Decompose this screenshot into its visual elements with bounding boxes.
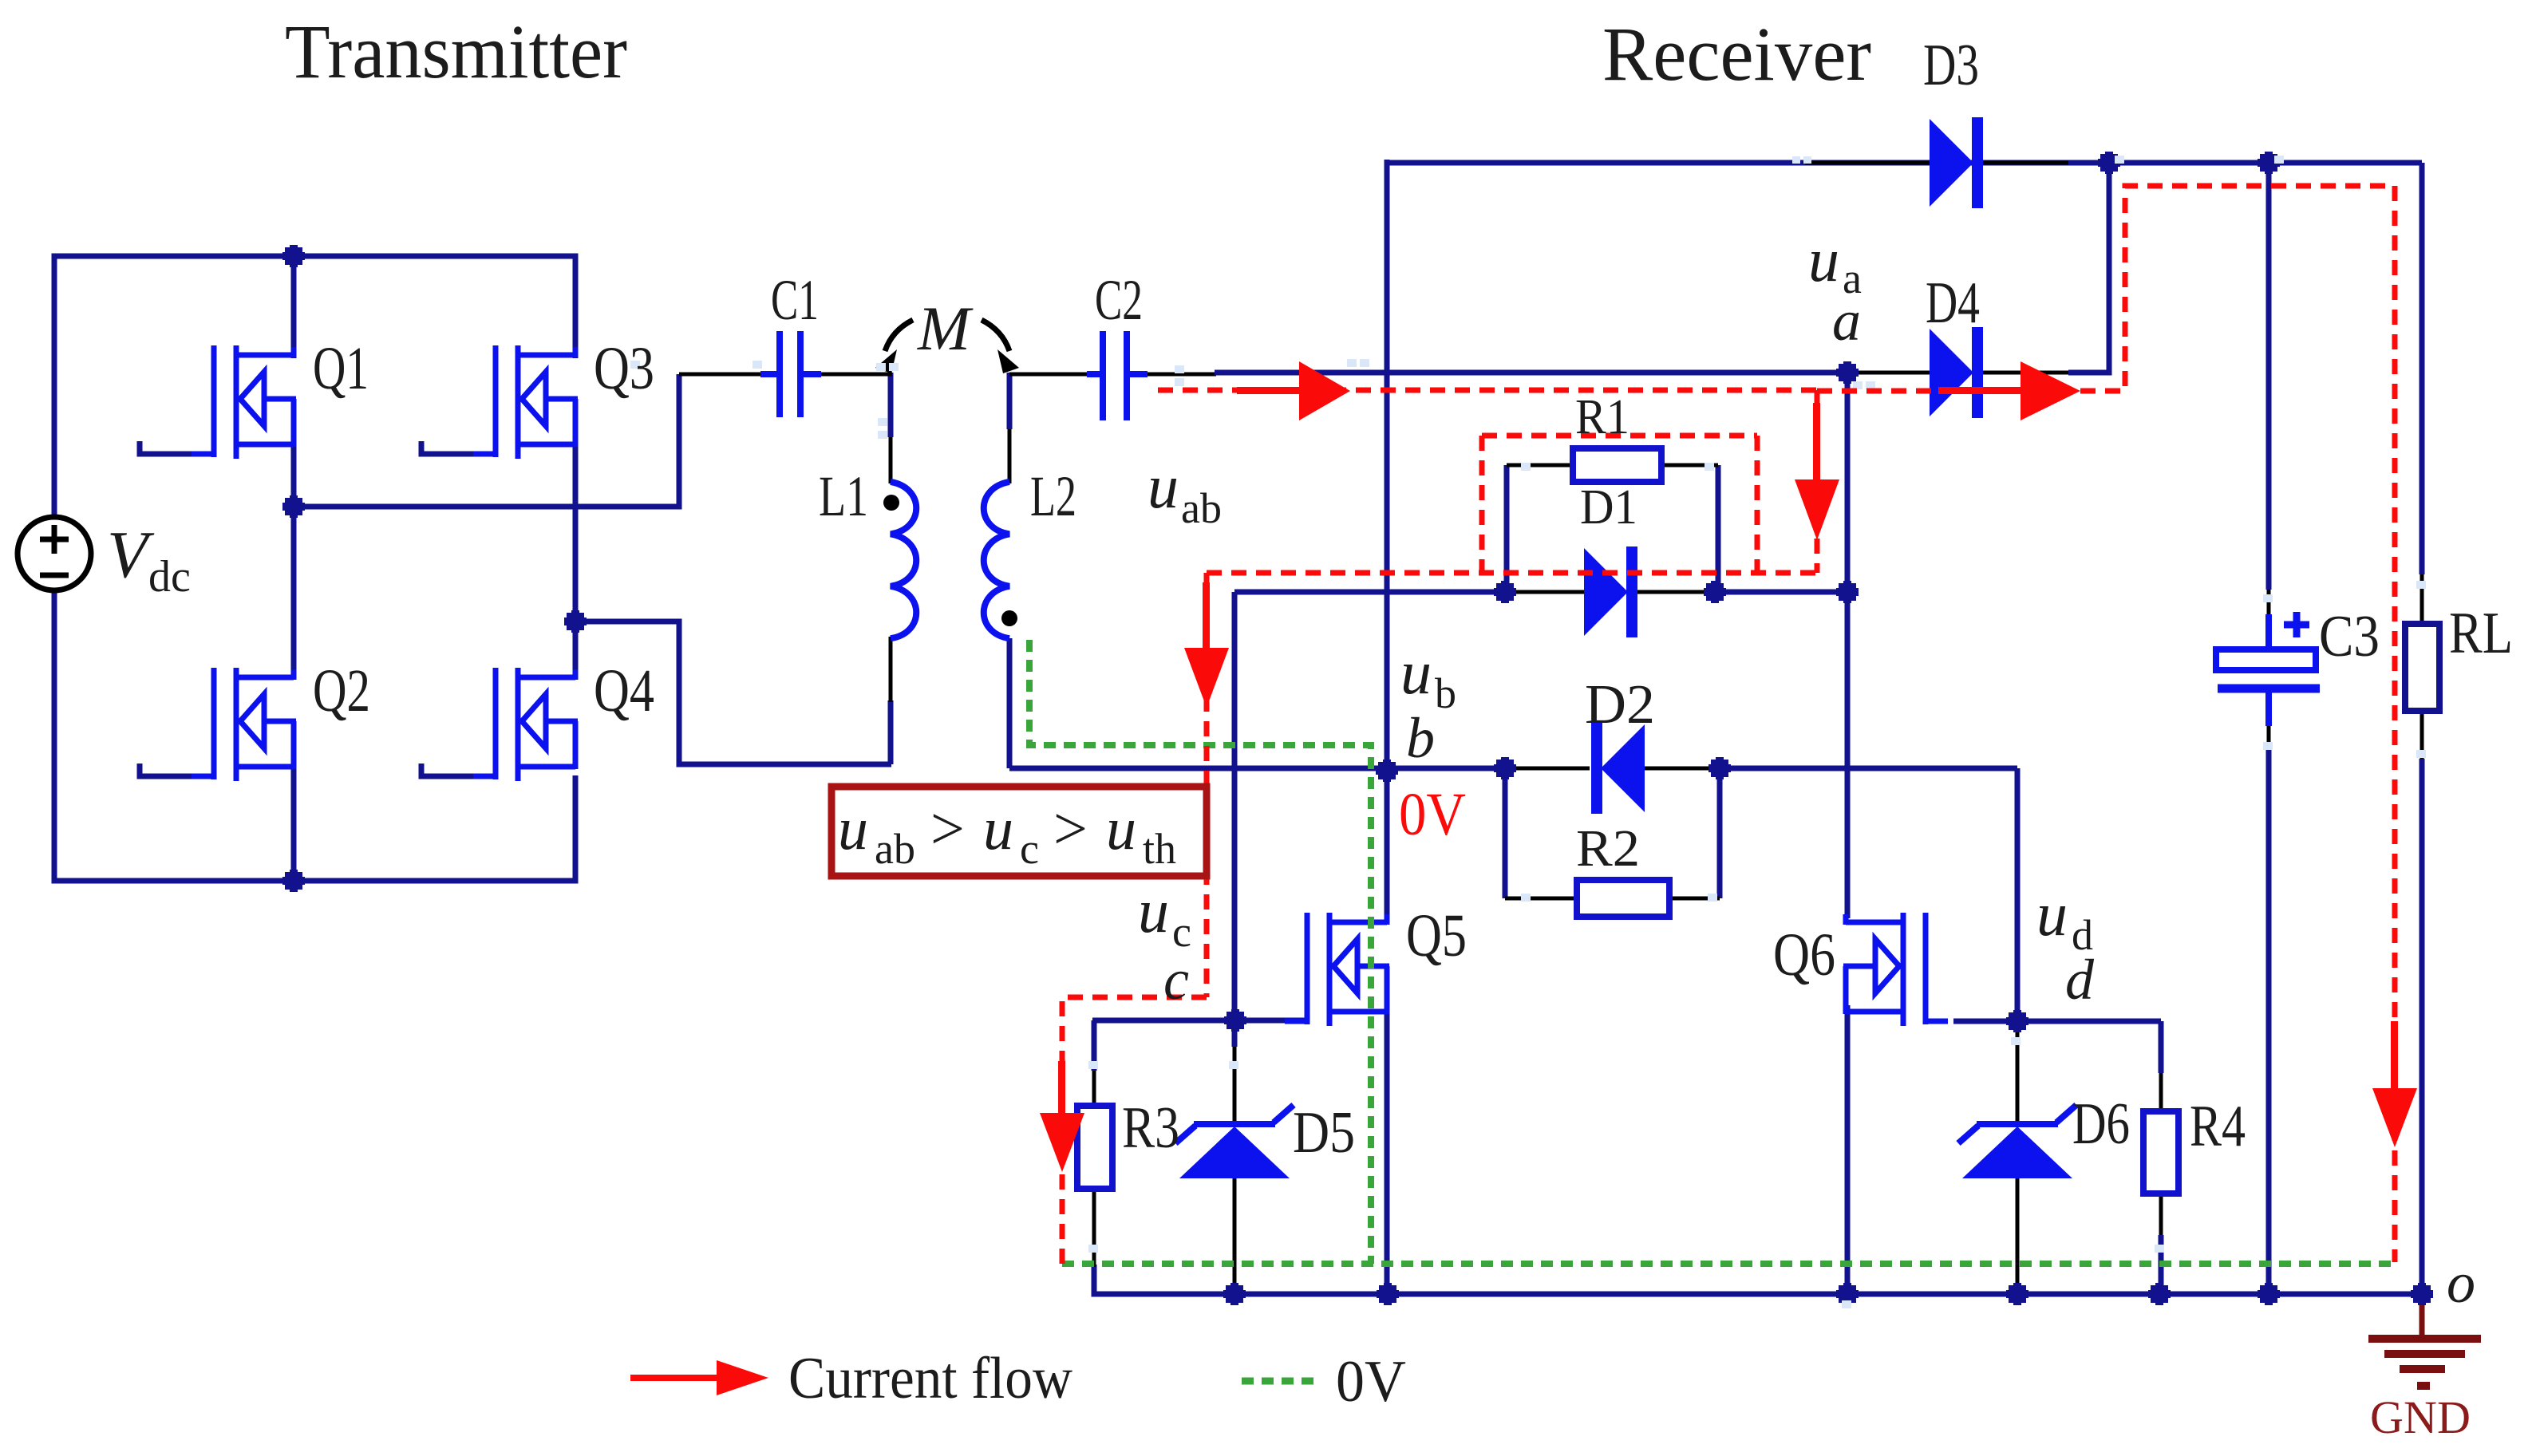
svg-text:b: b — [1435, 669, 1456, 717]
svg-text:c: c — [1163, 948, 1189, 1012]
wire top rail receiver — [1387, 160, 2422, 166]
svg-text:o: o — [2447, 1251, 2475, 1315]
wire D3 anode black — [1805, 161, 1931, 165]
svg-text:>: > — [930, 795, 965, 862]
source Vdc — [18, 517, 91, 590]
wire c row — [1092, 1018, 1307, 1024]
wire a-line from C2 to node a — [1215, 370, 1847, 376]
svg-text:D5: D5 — [1293, 1100, 1355, 1166]
node dot mid rail — [282, 495, 305, 518]
wire top rail — [54, 256, 575, 517]
svg-text:Q4: Q4 — [594, 657, 654, 724]
wire receiver left frame — [1385, 160, 1390, 771]
transistor Q6 — [1843, 913, 1948, 1026]
capacitor C1 — [760, 331, 821, 417]
wire node a vertical — [1845, 373, 1851, 592]
node a dot — [1836, 361, 1859, 384]
wire D1 row left — [1234, 590, 1505, 595]
wire Q5 drain — [1385, 771, 1390, 924]
wire R4 stem bottom — [2159, 1235, 2164, 1294]
wire C3 branch upper — [2266, 163, 2272, 590]
wire R3 stem black — [1092, 1071, 1096, 1106]
wire leg midpoint to L1 return — [575, 621, 891, 764]
wire node a to Q6 drain — [1845, 592, 1851, 918]
node b dot — [1376, 760, 1398, 782]
wire D5 stem black — [1233, 1047, 1237, 1124]
wire C3 stem black — [2267, 590, 2271, 614]
svg-text:Transmitter: Transmitter — [285, 9, 627, 94]
legend 0V dashes — [1242, 1378, 1317, 1385]
node dot a-column / D1 row — [1836, 581, 1859, 603]
transistor Q1 — [192, 345, 296, 459]
wire b row right — [1720, 766, 2017, 771]
red arrow after D4 — [1938, 387, 2030, 394]
inductor L1 — [891, 482, 916, 638]
legend current flow arrow — [630, 1360, 768, 1395]
red solid arrows — [1040, 361, 2417, 1172]
svg-text:Q2: Q2 — [313, 657, 370, 724]
wire Q4 gate lead — [421, 764, 475, 776]
red arrow on a-line — [1237, 387, 1301, 394]
svg-text:0V: 0V — [1336, 1349, 1406, 1415]
wire red R1 loop top — [1482, 433, 1757, 439]
wire red D4 out — [2080, 186, 2395, 1262]
diode D4 — [1930, 327, 1983, 418]
capacitor C2 — [1087, 331, 1148, 420]
wire C2 left black — [1009, 373, 1087, 377]
svg-text:th: th — [1143, 825, 1176, 873]
svg-text:ab: ab — [875, 825, 915, 873]
wire L2 top lead lower black — [1008, 429, 1012, 483]
wire Q1 gate lead — [140, 441, 193, 454]
svg-text:b: b — [1406, 706, 1435, 770]
wire R1 loop right — [1716, 465, 1721, 592]
L1 polarity dot — [883, 495, 899, 511]
resistor R2 — [1577, 880, 1669, 917]
node dot D3/D4 cathode join — [2098, 152, 2120, 174]
svg-text:D1: D1 — [1580, 480, 1637, 535]
wire D2 leads — [1505, 767, 1590, 771]
wire C3 branch lower — [2266, 750, 2272, 1294]
node o dot — [2411, 1283, 2433, 1305]
wire Q3 gate lead — [421, 441, 475, 454]
wire C1 right black — [821, 373, 892, 377]
wire Q1 drain — [291, 256, 297, 358]
wire R2 loop left — [1503, 768, 1508, 898]
wire red R1 loop bottom — [1207, 570, 1817, 576]
svg-text:ab: ab — [1181, 484, 1222, 532]
wire L2 bottom lead — [1007, 638, 1013, 768]
wire bottom rail — [1094, 1265, 2422, 1294]
wire Q3 source to leg midpoint — [573, 445, 579, 621]
diode D3 — [1930, 117, 1983, 208]
wire R1 leads — [1507, 464, 1574, 468]
wire Q1 source to mid node — [291, 445, 297, 511]
node dot R4 ground — [2148, 1283, 2171, 1305]
svg-text:Q1: Q1 — [313, 335, 369, 402]
wire red R1 loop left — [1479, 436, 1485, 573]
resistor R1 — [1573, 448, 1661, 482]
wire node c vertical — [1232, 592, 1238, 1020]
svg-text:u: u — [1138, 876, 1169, 945]
svg-text:R1: R1 — [1575, 390, 1629, 444]
svg-text:R2: R2 — [1576, 819, 1640, 878]
resistor R3 — [1077, 1106, 1112, 1189]
wire red R1 loop right — [1755, 436, 1760, 573]
svg-text:D4: D4 — [1926, 270, 1980, 336]
svg-text:u: u — [1106, 795, 1136, 862]
svg-text:C1: C1 — [771, 268, 819, 332]
node dot D6 ground — [2006, 1283, 2028, 1305]
svg-text:M: M — [917, 294, 974, 363]
svg-text:>: > — [1053, 795, 1088, 862]
svg-text:D6: D6 — [2072, 1091, 2130, 1157]
wire Q2 source — [291, 767, 297, 881]
wire D4 output corner — [2068, 163, 2109, 373]
transistor Q2 — [192, 668, 296, 781]
node dot D1/R1 right — [1704, 581, 1726, 603]
red arrow down to node o — [2391, 1021, 2398, 1091]
wire b row — [1009, 766, 1505, 771]
svg-text:C2: C2 — [1095, 268, 1143, 332]
resistor R4 — [2143, 1111, 2179, 1194]
transistor Q4 — [473, 668, 578, 781]
wire Q2 gate lead — [140, 764, 193, 776]
wire L1 top lead upper — [888, 373, 894, 437]
wire L2 top lead upper — [1007, 373, 1013, 429]
wire RL branch upper — [2420, 163, 2425, 574]
wire D1 leads — [1505, 590, 1586, 594]
svg-text:R3: R3 — [1122, 1095, 1179, 1161]
wire mid rail to C1 riser — [294, 374, 679, 507]
wire Q2 drain — [291, 507, 297, 674]
svg-text:u: u — [2036, 879, 2068, 949]
svg-text:Q3: Q3 — [594, 335, 654, 402]
wire D4 cathode black — [1981, 371, 2068, 375]
node dot bottom rail — [282, 870, 305, 892]
ground GND — [2368, 1303, 2481, 1386]
wire Q6 source — [1845, 1005, 1851, 1294]
wire RL branch lower to node o — [2420, 759, 2425, 1294]
svg-text:u: u — [1400, 637, 1432, 707]
svg-text:u: u — [1148, 452, 1179, 521]
wire D5 stem below c — [1232, 1020, 1238, 1047]
wire R3 stem top — [1092, 1020, 1097, 1071]
wire bottom rail — [54, 590, 575, 881]
wire D1 row right — [1715, 590, 1847, 595]
svg-text:d: d — [2065, 948, 2095, 1012]
annotation box u_ab > u_c > u_th — [832, 787, 1207, 876]
svg-text:c: c — [1020, 825, 1039, 873]
node dot D5 ground — [1223, 1283, 1246, 1305]
node dot Q3/Q4 midpoint — [564, 610, 587, 633]
node dot D2/R2 left — [1494, 757, 1516, 779]
svg-text:C3: C3 — [2319, 604, 2380, 669]
red arrow to R3 — [1058, 1061, 1065, 1115]
svg-text:Q5: Q5 — [1406, 902, 1467, 969]
wire d row — [1953, 1019, 2161, 1024]
inductor L2 — [984, 482, 1009, 638]
wire C2 right black — [1148, 373, 1216, 377]
node dot D1/R1 left — [1494, 581, 1516, 603]
anchor artifacts (light blue marks) — [630, 156, 2426, 1308]
wire Q5 source — [1385, 1011, 1390, 1294]
wire D3 cathode black — [1981, 161, 2068, 165]
svg-text:RL: RL — [2449, 601, 2513, 666]
transistor Q3 — [473, 345, 578, 459]
svg-text:u: u — [983, 795, 1013, 862]
svg-text:u: u — [1808, 225, 1839, 294]
node dot D2/R2 right — [1708, 757, 1731, 779]
L2 polarity dot — [1001, 610, 1017, 626]
svg-text:dc: dc — [148, 552, 191, 602]
svg-text:a: a — [1832, 289, 1861, 353]
red arrow on u_c drop — [1203, 582, 1210, 650]
wire D6 stem black — [2016, 1031, 2020, 1124]
wire C1 left black — [679, 373, 760, 377]
node c dot — [1224, 1009, 1246, 1032]
zener diode D5 — [1175, 1105, 1294, 1178]
wire red jog to R3 — [1062, 997, 1207, 1264]
capacitor C3 polarized — [2216, 612, 2320, 726]
wire R2 leads — [1505, 897, 1578, 901]
svg-text:D3: D3 — [1923, 33, 1979, 98]
mutual coupling arrows M — [885, 320, 1009, 351]
wire R4 stem top — [2159, 1021, 2164, 1073]
transistor Q5 — [1285, 913, 1389, 1026]
wire 0V bottom run — [1062, 1261, 2395, 1267]
svg-text:GND: GND — [2370, 1391, 2471, 1443]
svg-text:u: u — [838, 795, 868, 862]
wire R1 loop left — [1504, 465, 1510, 592]
svg-text:Receiver: Receiver — [1602, 11, 1871, 97]
wire L1 top lead lower black — [889, 437, 893, 483]
svg-text:R4: R4 — [2190, 1094, 2246, 1159]
wire R2 loop right — [1717, 768, 1723, 898]
svg-text:L1: L1 — [819, 464, 868, 528]
wire red drop at node a — [1815, 390, 1820, 573]
node dot Q5 source ground — [1377, 1283, 1399, 1305]
wire L1 bottom lead lower — [888, 700, 894, 764]
wire d riser — [2015, 768, 2021, 1021]
svg-text:Q6: Q6 — [1773, 921, 1835, 988]
wire red a-line dashes — [1158, 388, 1817, 393]
node d dot — [2006, 1010, 2028, 1032]
zener diode D6 — [1958, 1105, 2076, 1178]
wire R4 stem black — [2159, 1073, 2163, 1111]
wire Q4 drain — [573, 621, 579, 674]
wire red u_c drop — [1204, 573, 1210, 997]
node dot C3 top — [2258, 152, 2280, 174]
node dot top rail Q1 drain — [282, 245, 305, 267]
diode D2 — [1591, 723, 1645, 814]
diode D1 — [1584, 546, 1637, 637]
wire RL stem black — [2420, 574, 2424, 624]
svg-text:D2: D2 — [1585, 674, 1655, 736]
resistor RL — [2405, 624, 2439, 711]
node dot C3 bottom — [2258, 1283, 2280, 1305]
wire 0V from L2 bottom — [1029, 640, 1371, 1264]
svg-text:Current flow: Current flow — [788, 1346, 1073, 1411]
node dot Q6 source ground — [1836, 1283, 1859, 1305]
svg-text:0V: 0V — [1399, 781, 1466, 848]
svg-text:L2: L2 — [1030, 464, 1076, 528]
wire D4 anode black — [1847, 371, 1931, 375]
svg-text:V: V — [107, 518, 155, 592]
red arrow down at node a — [1813, 403, 1820, 483]
wire L1 bottom lead black — [889, 637, 893, 702]
